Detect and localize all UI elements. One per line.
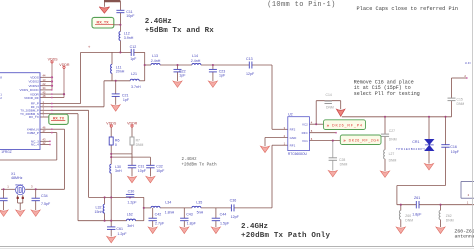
svg-text:Z62: Z62 <box>446 214 452 218</box>
svg-text:C36: C36 <box>230 198 237 202</box>
svg-text:VDDR_RF: VDDR_RF <box>24 96 39 100</box>
svg-text:DK26_RF_P4: DK26_RF_P4 <box>332 123 362 127</box>
svg-text:1.8pF: 1.8pF <box>412 213 422 217</box>
svg-text:DNM: DNM <box>389 137 397 141</box>
svg-text:1.8nH: 1.8nH <box>165 211 175 215</box>
svg-text:10pF: 10pF <box>156 169 165 173</box>
svg-text:15nH: 15nH <box>95 210 104 214</box>
svg-text:C13: C13 <box>246 57 253 61</box>
svg-text:C34: C34 <box>41 194 48 198</box>
svg-text:C14: C14 <box>326 93 332 97</box>
svg-text:DNM: DNM <box>405 219 413 223</box>
svg-text:0: 0 <box>115 143 117 147</box>
svg-text:DNM: DNM <box>389 158 397 162</box>
svg-text:1.2pF: 1.2pF <box>117 232 127 236</box>
svg-text:2.4nH: 2.4nH <box>191 59 201 63</box>
svg-text:RTC6608OU: RTC6608OU <box>288 152 308 156</box>
svg-text:3nH: 3nH <box>127 224 134 228</box>
svg-text:(10mm to Pin-1): (10mm to Pin-1) <box>267 1 335 9</box>
svg-text:1pF: 1pF <box>130 57 137 61</box>
svg-text:C27: C27 <box>389 129 395 133</box>
svg-text:GND: GND <box>290 136 298 140</box>
svg-text:2.4GHz: 2.4GHz <box>241 223 268 231</box>
svg-text:3.7nH: 3.7nH <box>131 85 141 89</box>
svg-text:C31: C31 <box>138 165 145 169</box>
svg-text:C42: C42 <box>155 212 162 216</box>
svg-text:RX_TX: RX_TX <box>96 20 109 24</box>
svg-text:10pF: 10pF <box>451 150 460 154</box>
svg-text:10pF: 10pF <box>126 14 135 18</box>
svg-text:NC_4: NC_4 <box>31 143 39 147</box>
svg-text:Z61: Z61 <box>414 196 420 200</box>
svg-text:ABM8W: ABM8W <box>15 183 24 186</box>
svg-text:L27: L27 <box>389 152 395 156</box>
svg-text:RF2: RF2 <box>290 127 296 131</box>
svg-text:+5dBm Tx and Rx: +5dBm Tx and Rx <box>145 27 214 35</box>
svg-text:C44: C44 <box>220 212 227 216</box>
svg-text:1pF: 1pF <box>219 74 226 78</box>
svg-text:C61: C61 <box>116 227 123 231</box>
svg-text:DK26_RF_2G4: DK26_RF_2G4 <box>349 139 379 143</box>
svg-text:U2: U2 <box>288 113 293 117</box>
svg-text:12pF: 12pF <box>231 215 240 219</box>
svg-text:L14: L14 <box>192 54 198 58</box>
svg-text:RX_TX: RX_TX <box>53 117 65 121</box>
svg-text:L35: L35 <box>196 201 202 205</box>
svg-text:L21: L21 <box>131 72 137 76</box>
svg-text:TPD1E0B04DPY: TPD1E0B04DPY <box>396 147 425 151</box>
svg-text:3.9nH: 3.9nH <box>124 36 134 40</box>
svg-text:Place Caps close to referred P: Place Caps close to referred Pin <box>357 6 459 12</box>
svg-text:Z60: Z60 <box>405 214 411 218</box>
svg-text:select Pll for testing: select Pll for testing <box>354 91 420 97</box>
svg-text:C30: C30 <box>128 189 135 193</box>
svg-text:DNM: DNM <box>136 143 144 147</box>
svg-text:DNM: DNM <box>326 105 334 109</box>
svg-text:5nH: 5nH <box>197 211 204 215</box>
svg-text:C28: C28 <box>339 158 345 162</box>
svg-text:+20dBm Tx Path Only: +20dBm Tx Path Only <box>241 232 330 240</box>
svg-text:1.5pF: 1.5pF <box>220 221 230 225</box>
svg-text:7.5pF: 7.5pF <box>41 202 51 206</box>
svg-text:L13: L13 <box>152 54 158 58</box>
svg-text:VC1: VC1 <box>302 139 308 143</box>
svg-text:U.Fl: U.Fl <box>465 61 471 65</box>
svg-text:1.2pF: 1.2pF <box>127 200 137 204</box>
svg-text:C12: C12 <box>130 45 137 49</box>
svg-text:20nH: 20nH <box>116 70 125 74</box>
svg-text:antenna: antenna <box>455 233 474 239</box>
svg-text:1.8pF: 1.8pF <box>187 221 197 225</box>
svg-text:3nH: 3nH <box>115 169 122 173</box>
svg-text:1FRGZ: 1FRGZ <box>1 150 12 154</box>
svg-text:2.7pF: 2.7pF <box>155 221 165 225</box>
svg-text:DNM: DNM <box>340 163 348 167</box>
svg-text:1pF: 1pF <box>123 98 130 102</box>
svg-text:10pF: 10pF <box>138 169 147 173</box>
svg-text:48MHz: 48MHz <box>11 176 23 180</box>
svg-text:+20dBm Tx Path: +20dBm Tx Path <box>182 162 218 167</box>
svg-text:CR1: CR1 <box>412 140 419 144</box>
svg-text:12pF: 12pF <box>246 72 255 76</box>
svg-text:L34: L34 <box>165 201 171 205</box>
svg-text:X48M_P: X48M_P <box>27 131 39 135</box>
svg-text:2.4GHz: 2.4GHz <box>145 18 172 26</box>
svg-text:L12: L12 <box>124 32 130 36</box>
svg-text:VC2: VC2 <box>302 122 308 126</box>
svg-text:RF1: RF1 <box>290 143 296 147</box>
svg-text:+: + <box>88 45 91 50</box>
svg-text:RFC: RFC <box>302 131 309 135</box>
svg-text:DNM: DNM <box>446 219 454 223</box>
svg-text:C11: C11 <box>126 10 132 14</box>
svg-text:1pF: 1pF <box>179 74 186 78</box>
svg-text:2.4GHz: 2.4GHz <box>182 158 198 162</box>
svg-text:C16: C16 <box>450 145 457 149</box>
svg-text:RX_TX: RX_TX <box>29 115 39 119</box>
svg-text:2.4nH: 2.4nH <box>151 59 161 63</box>
svg-text:L62: L62 <box>127 212 133 216</box>
svg-text:DNM: DNM <box>457 102 465 106</box>
svg-text:C32: C32 <box>156 165 163 169</box>
svg-text:C43: C43 <box>186 212 193 216</box>
